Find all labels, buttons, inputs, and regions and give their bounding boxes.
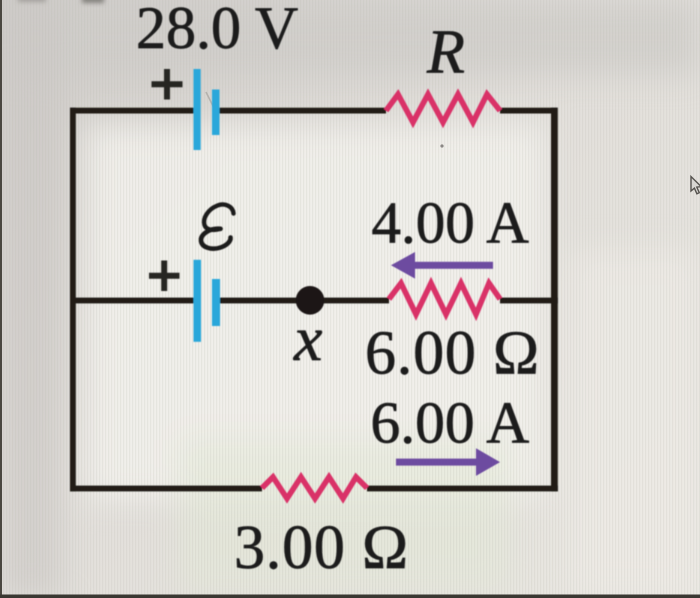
- wire: bottom, right segment: [367, 486, 558, 492]
- wire: top, left segment: [70, 108, 194, 114]
- svg-text:R: R: [426, 18, 465, 86]
- battery B2 EMF (long + short plates): [194, 260, 221, 342]
- wire: bottom, left segment: [70, 486, 262, 492]
- node x (junction dot): [296, 286, 325, 315]
- battery B1 28.0 V (long + short plates): [194, 69, 220, 150]
- resistor 6.00 ohm: [389, 283, 500, 314]
- label EMF script-E for battery B2: [201, 204, 234, 248]
- svg-text:4.00 A: 4.00 A: [372, 190, 530, 256]
- wire: top, middle segment between battery and resistor R: [219, 108, 386, 114]
- polarity + of battery B1: [152, 69, 183, 100]
- svg-text:6.00 Ω: 6.00 Ω: [365, 320, 540, 388]
- wire: middle, left segment: [70, 298, 194, 304]
- svg-text:28.0 V: 28.0 V: [136, 0, 298, 61]
- polarity + of battery B2: [149, 261, 180, 292]
- wire: top, right segment after resistor R: [500, 108, 558, 114]
- wire: middle, segment between battery and resistor 6ohm: [220, 298, 390, 304]
- svg-text:3.00 Ω: 3.00 Ω: [234, 514, 409, 582]
- svg-text:x: x: [293, 303, 322, 374]
- current arrow 6.00 A (right-pointing): [396, 448, 500, 476]
- resistor 3.00 ohm: [262, 477, 367, 499]
- wire: middle, right segment: [500, 298, 558, 304]
- wire: left vertical: [70, 108, 76, 492]
- wire: right vertical: [551, 108, 558, 492]
- current arrow 4.00 A (left-pointing): [391, 252, 493, 279]
- svg-text:6.00 A: 6.00 A: [371, 390, 530, 456]
- resistor R: [386, 94, 500, 122]
